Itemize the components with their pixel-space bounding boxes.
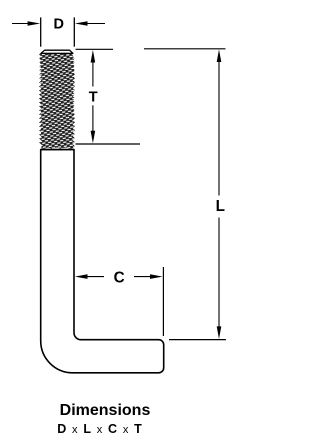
dimension C: right arrow: [134, 276, 151, 278]
dimension T: vertical line + arrows: [92, 60, 94, 87]
thread runout line: [41, 149, 74, 151]
svg-text:D x L x C x T: D x L x C x T: [57, 422, 142, 436]
chamfered top of bolt: [41, 50, 73, 53]
dimension T: bottom extension line: [76, 143, 141, 145]
dimension D: right extension tick: [73, 17, 75, 46]
svg-text:C: C: [114, 269, 125, 286]
dimension C: right extension line: [162, 267, 164, 336]
threaded section (textured block): [39, 53, 75, 150]
dimension T: top extension line: [76, 48, 114, 50]
svg-text:L: L: [216, 198, 225, 215]
dimension L: vertical line + arrows: [218, 60, 220, 196]
anchor bolt L-shaped body (smooth shank + bent foot): [41, 150, 164, 373]
svg-text:Dimensions: Dimensions: [60, 402, 151, 419]
dimension L: bottom extension line: [169, 339, 226, 341]
dimension D: left extension tick: [40, 17, 42, 46]
svg-text:T: T: [89, 89, 98, 105]
svg-text:D: D: [54, 17, 64, 33]
dimension C: left arrow (points left to shank inner edge): [86, 276, 104, 278]
dimension D: right arrow: [82, 23, 105, 25]
dimension D: left arrow: [12, 23, 33, 25]
dimension L: top extension line: [144, 48, 226, 50]
